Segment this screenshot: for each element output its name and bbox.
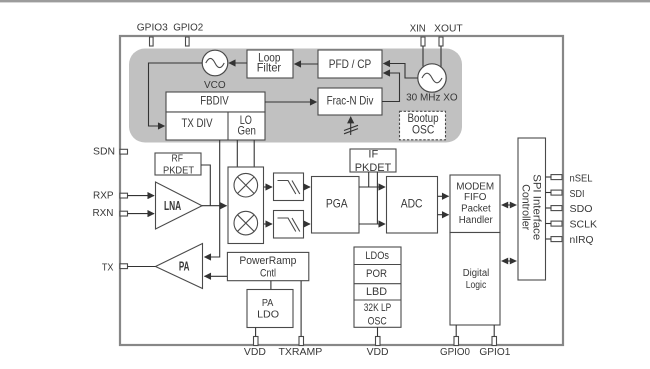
label TX (102, 263, 114, 274)
wire XOUT to crystal (440, 46, 442, 67)
pin XIN (421, 37, 425, 46)
svg-text:OSC: OSC (412, 123, 435, 137)
block Digital Logic (450, 233, 500, 326)
top page border line (0, 0, 650, 2)
pin RXN (120, 211, 128, 216)
svg-text:SDI: SDI (570, 189, 585, 200)
amplifier LNA (156, 182, 203, 229)
wire LDO stack to VDD pin (377, 327, 379, 336)
wire SPI to SCLK (546, 223, 552, 225)
wire XIN to crystal (422, 46, 424, 67)
svg-text:PGA: PGA (326, 197, 348, 211)
label nIRQ (570, 235, 594, 246)
svg-text:XIN: XIN (410, 23, 426, 34)
pin RXP (120, 193, 128, 198)
label GPIO2 (173, 23, 203, 34)
svg-text:VDD: VDD (367, 347, 389, 358)
wire PowerRamp to PA (205, 275, 228, 277)
pin nSEL (551, 175, 562, 180)
svg-text:Cntl: Cntl (260, 268, 276, 280)
svg-text:LBD: LBD (366, 286, 387, 298)
svg-text:Gen: Gen (238, 124, 256, 138)
pin SDN (120, 149, 128, 154)
pin GPIO2 (186, 37, 190, 46)
wire ADC to MODEM Q (438, 214, 449, 216)
label nSEL (570, 174, 593, 185)
svg-text:Filter: Filter (257, 60, 281, 74)
pin GPIO3 (150, 37, 154, 46)
svg-text:FIFO: FIFO (464, 192, 487, 203)
svg-text:ADC: ADC (401, 197, 423, 211)
wire RF PKDET to LNA output node (201, 165, 210, 206)
svg-text:PowerRamp: PowerRamp (239, 255, 296, 267)
wire mixer Q to filter Q (264, 223, 273, 225)
crystal oscillator 30 MHz XO (406, 64, 458, 104)
svg-text:PA: PA (262, 298, 274, 309)
wire RXN to LNA (128, 213, 155, 215)
svg-text:PKDET: PKDET (163, 166, 194, 177)
filter Q (274, 211, 304, 239)
wire PowerRamp to PA LDO (270, 281, 272, 290)
wire MODEM to SPI (bidirectional) (501, 202, 517, 209)
wire PGA to ADC I (359, 186, 385, 188)
wire Frac-N Div to PFD/CP (382, 73, 400, 102)
svg-text:POR: POR (366, 268, 387, 280)
wire SPI to SDO (546, 207, 552, 209)
svg-text:LDOs: LDOs (365, 250, 389, 262)
pin SCLK (551, 221, 562, 226)
wire TXRAMP to PowerRamp (300, 281, 302, 337)
wire crystal to PFD/CP (384, 64, 418, 79)
wire PA LDO to VDD pin (255, 328, 257, 337)
wire Loop Filter to VCO (229, 62, 247, 64)
svg-text:PKDET: PKDET (355, 162, 392, 174)
wire LNA to mixers (202, 205, 227, 207)
wire PFD/CP to Loop Filter (295, 63, 319, 65)
svg-text:Handler: Handler (459, 215, 494, 226)
pin VDD (LDOs) (376, 337, 381, 346)
wire SPI to SDI (546, 192, 552, 194)
block LDOs / POR / LBD / 32K LP OSC stack (354, 247, 401, 328)
svg-text:Packet: Packet (461, 204, 491, 215)
wire IF PKDET tap Q (376, 172, 378, 224)
label SCLK (570, 220, 598, 231)
svg-text:TXRAMP: TXRAMP (279, 347, 323, 358)
svg-text:RXN: RXN (93, 208, 114, 219)
label RXN (93, 208, 114, 219)
block IF PKDET (350, 148, 396, 174)
block PowerRamp Cntl (227, 252, 308, 280)
block Bootup OSC (dashed) (400, 111, 446, 140)
chip outline (120, 36, 563, 345)
label TXRAMP (279, 347, 323, 358)
label GPIO0 (440, 347, 470, 358)
block PGA (312, 177, 360, 234)
label SDI (570, 189, 585, 200)
wire Digital Logic to GPIO0 (455, 325, 457, 337)
svg-text:Frac-N Div: Frac-N Div (327, 94, 374, 108)
wire PGA to ADC Q (359, 223, 385, 225)
svg-text:VDD: VDD (244, 347, 266, 358)
label VDD center (367, 347, 389, 358)
svg-text:RF: RF (172, 154, 184, 165)
block FBDIV (166, 92, 265, 112)
wire TX DIV to PA (205, 140, 220, 257)
pin XOUT (439, 37, 443, 46)
block RF PKDET (155, 153, 201, 177)
svg-text:Digital: Digital (463, 268, 490, 279)
label GPIO1 (479, 347, 510, 358)
svg-text:GPIO1: GPIO1 (479, 347, 510, 358)
label VDD left (244, 347, 266, 358)
svg-text:OSC: OSC (368, 316, 387, 328)
mixer block (228, 167, 264, 244)
block PFD / CP (318, 50, 382, 78)
svg-text:MODEM: MODEM (456, 182, 494, 193)
wire SPI to nIRQ (546, 238, 552, 240)
wire ADC to MODEM I (438, 195, 449, 197)
svg-text:TX DIV: TX DIV (182, 116, 213, 130)
svg-text:TX: TX (102, 263, 114, 274)
svg-text:PFD / CP: PFD / CP (329, 57, 372, 71)
PLL section shaded region (129, 49, 462, 143)
svg-text:LDO: LDO (257, 309, 279, 320)
pin TX (120, 264, 128, 269)
svg-text:32K LP: 32K LP (364, 302, 392, 314)
block MODEM FIFO Packet Handler (450, 175, 500, 233)
block TX DIV / LO Gen (166, 112, 265, 140)
svg-text:nSEL: nSEL (570, 174, 593, 185)
wire Digital Logic to SPI (bidirectional) (501, 258, 517, 265)
label XOUT (434, 23, 463, 34)
wire Digital Logic to GPIO1 (493, 325, 495, 337)
svg-text:XOUT: XOUT (434, 23, 463, 34)
filter I (274, 173, 304, 201)
block PA LDO (247, 290, 293, 328)
wire RXP to LNA (128, 195, 155, 197)
svg-text:LNA: LNA (164, 199, 181, 213)
svg-text:SCLK: SCLK (570, 220, 598, 231)
wire VCO to TX DIV (149, 63, 203, 126)
wire SPI to nSEL (546, 176, 552, 178)
pin VDD (PA LDO) (254, 337, 259, 346)
pin nIRQ (551, 237, 562, 242)
label RXP (93, 191, 114, 202)
svg-text:FBDIV: FBDIV (200, 93, 229, 107)
wire filter Q to PGA (304, 223, 311, 225)
wire mixer I to filter I (264, 186, 273, 188)
label XIN (410, 23, 426, 34)
block Frac-N Div (318, 88, 382, 115)
svg-text:Controller: Controller (520, 184, 532, 230)
oscillator VCO (202, 50, 228, 91)
block Loop Filter (247, 50, 293, 78)
pin SDI (551, 190, 562, 195)
amplifier PA (156, 244, 203, 289)
wire TX pin to PA (128, 266, 156, 268)
label SDO (570, 204, 593, 215)
pin TXRAMP (299, 337, 304, 346)
svg-text:30 MHz XO: 30 MHz XO (406, 93, 458, 104)
svg-text:SDO: SDO (570, 204, 593, 215)
wire filter I to PGA (304, 186, 311, 188)
svg-text:nIRQ: nIRQ (570, 235, 594, 246)
pin SDO (551, 206, 562, 211)
svg-text:GPIO0: GPIO0 (440, 347, 470, 358)
wire FBDIV to Frac-N Div (265, 101, 317, 103)
block ADC (387, 177, 438, 234)
svg-text:GPIO2: GPIO2 (173, 23, 203, 34)
svg-text:VCO: VCO (204, 80, 226, 91)
svg-text:RXP: RXP (93, 191, 114, 202)
block SPI Interface Controller (518, 138, 546, 280)
wire LO Gen to mixer I (236, 140, 238, 167)
svg-text:GPIO3: GPIO3 (137, 23, 168, 34)
pin GPIO1 (492, 337, 497, 346)
pin GPIO0 (454, 337, 459, 346)
svg-text:PA: PA (179, 260, 190, 274)
wire IF PKDET tap I (368, 172, 370, 187)
svg-text:Logic: Logic (466, 280, 487, 291)
svg-text:SDN: SDN (93, 146, 115, 157)
wire LO Gen to mixer Q (253, 140, 255, 167)
svg-text:IF: IF (368, 148, 378, 160)
label SDN (93, 146, 115, 157)
wire modulation input to Frac-N Div (344, 117, 358, 135)
label GPIO3 (137, 23, 168, 34)
